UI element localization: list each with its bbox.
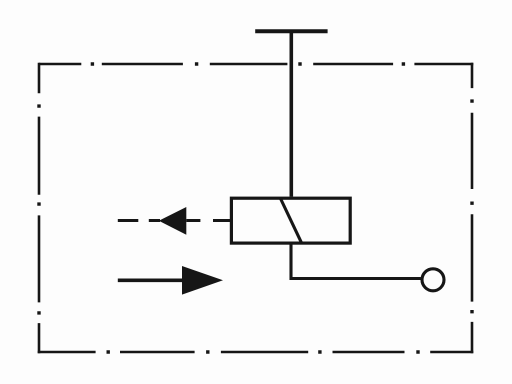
enclosure dash-dot frame right: [471, 63, 474, 354]
left-pointing arrowhead on actuation line: [159, 207, 187, 235]
dashed actuation line: [118, 219, 232, 222]
terminal bar (top T terminal): [255, 29, 327, 33]
terminal circle: [422, 269, 444, 291]
enclosure dash-dot frame left: [38, 63, 41, 354]
solid flow arrow shaft: [118, 278, 183, 282]
enclosure dash-dot frame bottom: [38, 351, 474, 354]
enclosure dash-dot frame top: [39, 63, 474, 66]
right-pointing solid arrowhead: [182, 266, 223, 295]
wire from coil box bottom to terminal circle: [291, 243, 421, 278]
wire from terminal bar to coil box: [289, 31, 293, 196]
coil box (valve/relay element): [231, 198, 350, 243]
diagonal stroke inside coil box: [281, 199, 302, 243]
